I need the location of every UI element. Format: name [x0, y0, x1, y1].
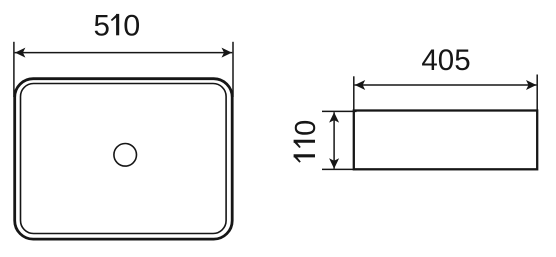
svg-text:0: 0 — [290, 120, 322, 136]
extension line right (405 dim) — [536, 75, 538, 111]
svg-text:405: 405 — [421, 44, 470, 77]
extension line top (110 dim) — [322, 110, 357, 112]
basin inner rim (top view) — [21, 84, 227, 234]
extension line left (510 dim) — [13, 42, 15, 97]
extension line left (405 dim) — [353, 76, 355, 110]
extension line bottom (110 dim) — [322, 168, 357, 170]
dimension text 510 — [94, 9, 141, 42]
extension line right (510 dim) — [232, 42, 234, 97]
dimension line 110 — [329, 112, 339, 169]
dimension line 510 — [15, 48, 233, 58]
side view body rectangle — [354, 111, 537, 170]
dimension text 405 — [421, 44, 470, 77]
dimension line 405 — [355, 80, 537, 90]
drain hole circle — [114, 144, 137, 167]
svg-text:0: 0 — [123, 9, 140, 42]
dimension text 110 — [290, 120, 322, 163]
svg-text:5: 5 — [94, 9, 110, 42]
basin outer rim (top view) — [15, 79, 233, 239]
